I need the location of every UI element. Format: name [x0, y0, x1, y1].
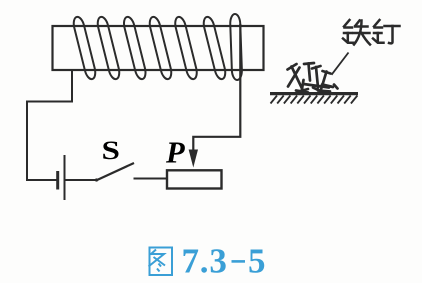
svg-text:S: S	[102, 136, 120, 165]
svg-text:5: 5	[248, 242, 266, 281]
svg-text:P: P	[165, 136, 185, 170]
svg-text:7.3: 7.3	[182, 242, 228, 281]
